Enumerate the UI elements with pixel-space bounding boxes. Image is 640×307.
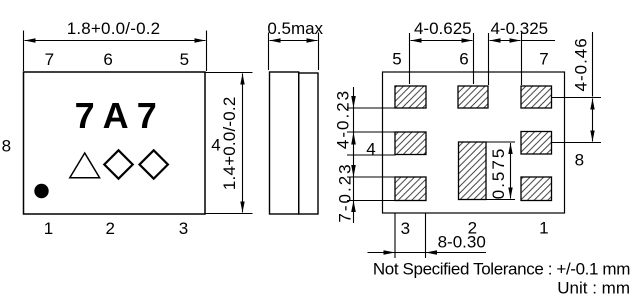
dimension 4-0.46 <box>552 32 601 143</box>
pad 6 <box>458 86 488 108</box>
pad 3 <box>395 177 426 201</box>
svg-text:1.4+0.0/-0.2: 1.4+0.0/-0.2 <box>220 96 239 190</box>
svg-text:4-0.325: 4-0.325 <box>490 19 548 38</box>
svg-text:3: 3 <box>179 219 188 238</box>
pad 4 <box>395 132 426 155</box>
svg-text:3: 3 <box>401 219 410 238</box>
pad 7 <box>521 86 552 108</box>
side view lid <box>299 73 318 214</box>
dimension 1.8+0.0/-0.2 <box>24 19 207 71</box>
svg-text:4-0.625: 4-0.625 <box>414 19 472 38</box>
svg-text:1: 1 <box>539 219 548 238</box>
svg-text:6: 6 <box>459 50 468 69</box>
svg-text:7-0.23: 7-0.23 <box>336 162 355 222</box>
svg-text:8: 8 <box>575 151 584 170</box>
svg-text:1: 1 <box>44 219 53 238</box>
dimension 4-0.325 <box>489 19 556 85</box>
dimension 1.4+0.0/-0.2 <box>205 73 253 214</box>
svg-text:4-0.23: 4-0.23 <box>334 89 353 149</box>
pad 1 <box>521 177 552 201</box>
dimension 4-0.625 <box>410 19 474 84</box>
svg-text:7: 7 <box>539 50 548 69</box>
diamond symbol 2 <box>140 150 168 178</box>
diamond symbol 1 <box>104 150 132 178</box>
svg-text:6: 6 <box>103 50 112 69</box>
side view body <box>270 72 299 214</box>
top view outline <box>24 72 206 214</box>
svg-text:8: 8 <box>2 137 11 156</box>
pad 2 <box>459 142 487 200</box>
svg-text:4: 4 <box>366 140 375 159</box>
svg-text:5: 5 <box>392 50 401 69</box>
marking 7A7 <box>75 95 157 136</box>
triangle symbol <box>70 153 100 178</box>
dimension 7-0.23 <box>336 155 396 223</box>
svg-text:7 A 7: 7 A 7 <box>75 95 157 136</box>
svg-text:7: 7 <box>45 50 54 69</box>
pad 8 <box>521 132 552 155</box>
dimension 0.575 <box>486 142 515 200</box>
svg-text:4-0.46: 4-0.46 <box>572 37 591 91</box>
svg-text:Unit : mm: Unit : mm <box>557 279 630 298</box>
svg-text:5: 5 <box>180 50 189 69</box>
svg-text:Not Specified Tolerance : +/-0: Not Specified Tolerance : +/-0.1 mm <box>373 260 630 279</box>
svg-text:1.8+0.0/-0.2: 1.8+0.0/-0.2 <box>67 19 161 38</box>
dimension 0.5max <box>267 19 323 70</box>
svg-text:0.5max: 0.5max <box>267 19 323 38</box>
svg-text:0.575: 0.575 <box>489 147 508 200</box>
dimension 4-0.23 <box>334 87 396 223</box>
dimension 8-0.30 <box>368 214 487 259</box>
svg-text:8-0.30: 8-0.30 <box>438 233 486 252</box>
pin 1 index dot <box>34 184 48 198</box>
land pattern outline <box>383 72 565 213</box>
svg-text:2: 2 <box>105 219 114 238</box>
pad 5 <box>395 86 426 108</box>
